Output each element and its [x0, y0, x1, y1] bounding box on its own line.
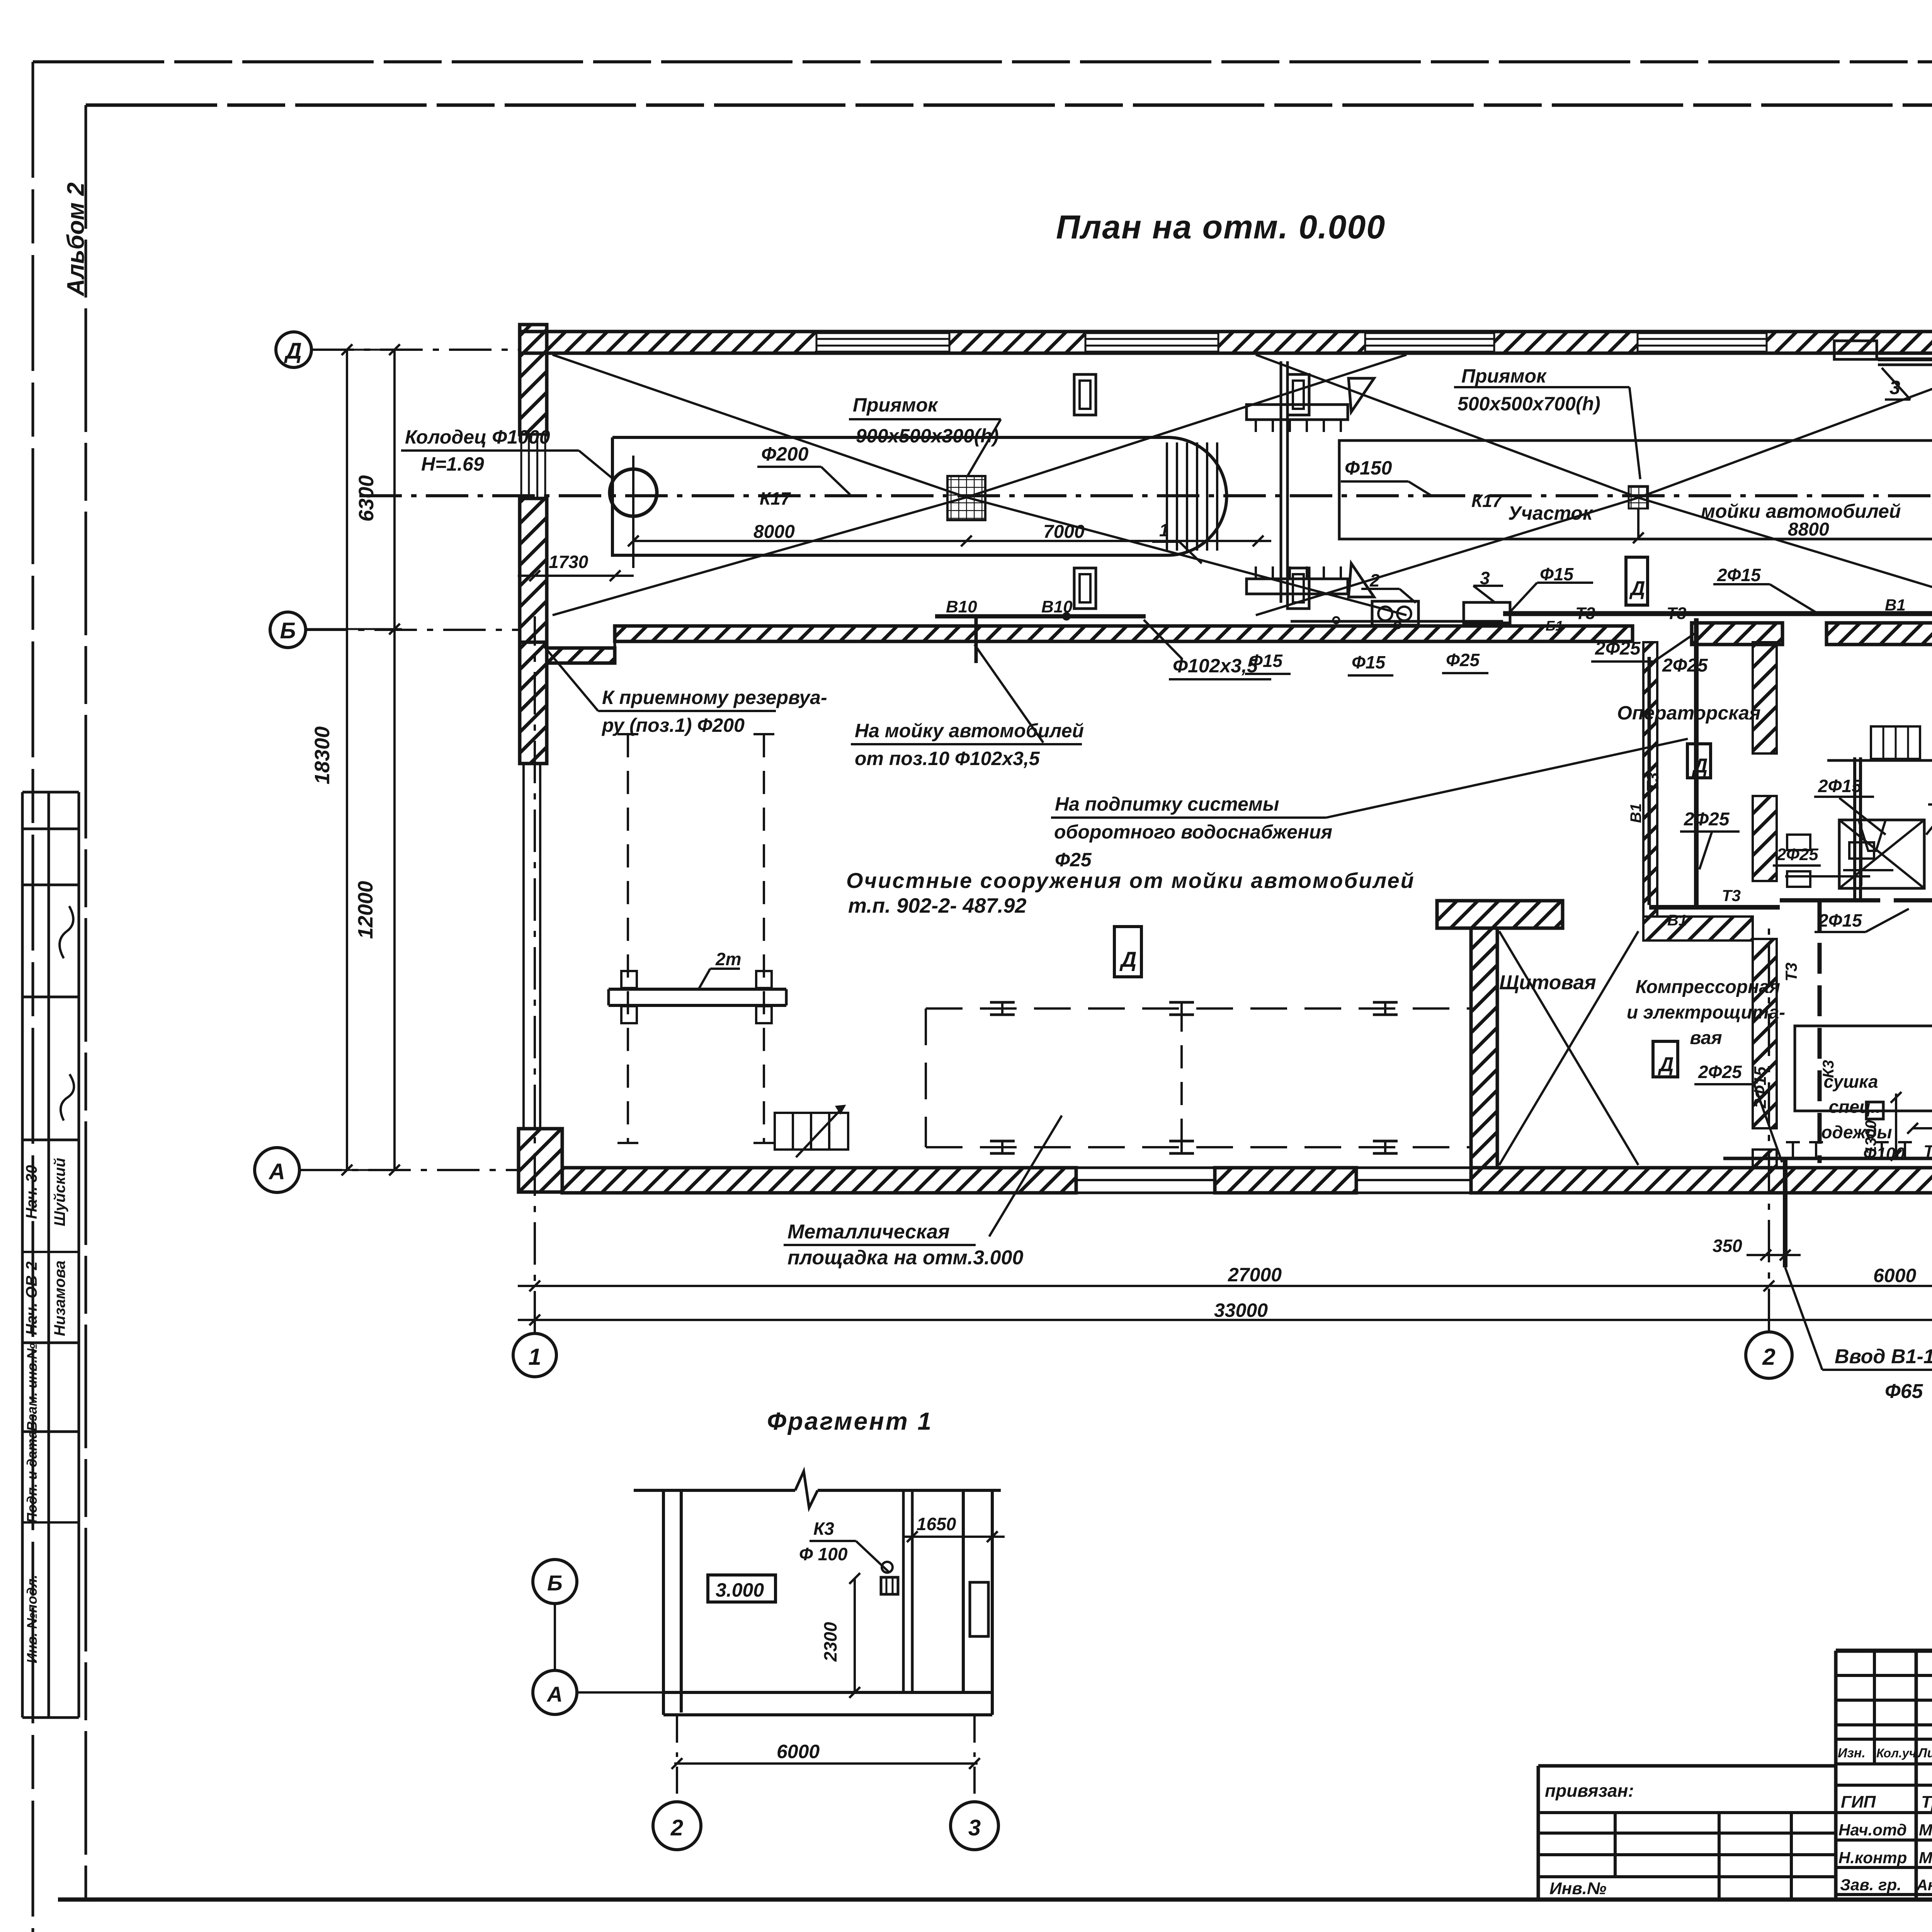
- svg-text:На подпитку системы: На подпитку системы: [1055, 793, 1279, 815]
- svg-text:6000: 6000: [1873, 1265, 1916, 1286]
- svg-text:27000: 27000: [1228, 1264, 1282, 1286]
- svg-text:Д: Д: [1119, 947, 1136, 971]
- svg-text:Т3: Т3: [1923, 1142, 1932, 1161]
- svg-text:8800: 8800: [1788, 519, 1829, 540]
- svg-text:В10: В10: [946, 597, 977, 616]
- svg-text:Инв.№: Инв.№: [1549, 1879, 1606, 1898]
- svg-text:Ф25: Ф25: [1055, 849, 1092, 871]
- svg-text:К17: К17: [1471, 491, 1503, 511]
- svg-text:На мойку автомобилей: На мойку автомобилей: [855, 720, 1084, 742]
- svg-text:К приемному резервуа-: К приемному резервуа-: [602, 687, 827, 708]
- svg-text:Ф 100: Ф 100: [799, 1544, 848, 1564]
- svg-text:вая: вая: [1690, 1028, 1722, 1048]
- svg-text:План на отм. 0.000: План на отм. 0.000: [1056, 209, 1386, 246]
- svg-text:2Ф25: 2Ф25: [1595, 638, 1641, 659]
- svg-text:500х500х700(h): 500х500х700(h): [1458, 393, 1600, 415]
- svg-text:Очистные сооружения от мойк: Очистные сооружения от мойки автомобилей: [846, 868, 1415, 893]
- svg-text:900х500х300(h): 900х500х300(h): [856, 425, 999, 447]
- svg-text:В1: В1: [1885, 596, 1906, 614]
- svg-text:от поз.10 Ф102х3,5: от поз.10 Ф102х3,5: [855, 748, 1040, 769]
- svg-text:2: 2: [1369, 570, 1380, 590]
- svg-text:Б: Б: [547, 1571, 563, 1595]
- svg-text:Подп. и дата: Подп. и дата: [24, 1431, 40, 1523]
- svg-text:Т3: Т3: [1722, 886, 1741, 905]
- svg-text:2Ф25: 2Ф25: [1684, 809, 1730, 830]
- svg-text:В1: В1: [1667, 912, 1687, 929]
- svg-text:ру (поз.1) Ф200: ру (поз.1) Ф200: [601, 714, 745, 736]
- svg-text:Т3: Т3: [1782, 963, 1800, 981]
- svg-text:1: 1: [1159, 520, 1169, 540]
- svg-text:2Ф25: 2Ф25: [1776, 845, 1818, 864]
- svg-text:Низамова: Низамова: [51, 1260, 68, 1336]
- svg-text:ГИП: ГИП: [1841, 1793, 1876, 1811]
- svg-text:Т3: Т3: [1667, 604, 1686, 623]
- svg-text:В1: В1: [1628, 803, 1645, 823]
- svg-text:2Ф15: 2Ф15: [1717, 565, 1761, 585]
- svg-text:350: 350: [1713, 1236, 1742, 1256]
- svg-text:Нач.отд: Нач.отд: [1838, 1821, 1907, 1839]
- svg-text:спец..: спец..: [1829, 1097, 1881, 1117]
- svg-text:А: А: [546, 1682, 563, 1706]
- svg-text:33000: 33000: [1214, 1299, 1268, 1321]
- svg-text:Н.контр: Н.контр: [1838, 1849, 1907, 1867]
- svg-text:мойки автомобилей: мойки автомобилей: [1701, 500, 1901, 522]
- svg-text:Марионков: Марионков: [1919, 1849, 1932, 1867]
- svg-text:6000: 6000: [777, 1741, 820, 1762]
- svg-text:Инв. №подл.: Инв. №подл.: [24, 1575, 40, 1663]
- svg-text:Ф25: Ф25: [1446, 650, 1480, 670]
- svg-text:К17: К17: [760, 488, 791, 509]
- svg-text:2: 2: [670, 1815, 683, 1840]
- svg-text:и электрощита-: и электрощита-: [1627, 1002, 1785, 1023]
- svg-text:6300: 6300: [355, 475, 378, 522]
- svg-text:Марионков: Марионков: [1919, 1821, 1932, 1839]
- svg-text:3.000: 3.000: [716, 1579, 764, 1601]
- svg-text:Кол.уч: Кол.уч: [1876, 1746, 1916, 1760]
- svg-text:1: 1: [528, 1344, 541, 1370]
- svg-text:1730: 1730: [549, 552, 588, 572]
- svg-text:Ф200: Ф200: [761, 443, 809, 465]
- svg-text:Н=1.69: Н=1.69: [421, 453, 484, 475]
- svg-text:Металлическая: Металлическая: [787, 1221, 950, 1243]
- svg-text:В10: В10: [1041, 597, 1073, 616]
- svg-text:К3: К3: [1820, 1060, 1837, 1078]
- svg-text:Зав. гр.: Зав. гр.: [1840, 1876, 1901, 1894]
- svg-text:12000: 12000: [354, 881, 377, 939]
- svg-text:А: А: [268, 1159, 285, 1184]
- svg-text:Трушин: Трушин: [1921, 1793, 1932, 1811]
- svg-text:Б: Б: [280, 618, 296, 643]
- svg-text:2Ф25: 2Ф25: [1698, 1062, 1742, 1082]
- svg-text:Шуйский: Шуйский: [51, 1158, 68, 1226]
- svg-text:Лист: Лист: [1917, 1746, 1932, 1760]
- svg-text:Щитовая: Щитовая: [1499, 971, 1596, 994]
- svg-text:8000: 8000: [753, 522, 795, 542]
- svg-text:Ф15: Ф15: [1352, 652, 1386, 672]
- svg-text:Д: Д: [284, 338, 302, 364]
- svg-text:Нач. ОВ-2: Нач. ОВ-2: [23, 1262, 40, 1335]
- svg-text:Д: Д: [1658, 1053, 1674, 1076]
- svg-text:2Ф15: 2Ф15: [1751, 1066, 1770, 1109]
- svg-text:привязан:: привязан:: [1545, 1781, 1634, 1801]
- svg-text:Ф15: Ф15: [1249, 651, 1283, 671]
- svg-text:Приямок: Приямок: [853, 394, 939, 416]
- svg-text:Т3: Т3: [1643, 772, 1662, 792]
- svg-text:оборотного водоснабжения: оборотного водоснабжения: [1054, 821, 1332, 843]
- svg-text:т.п. 902-2- 487.92: т.п. 902-2- 487.92: [848, 894, 1027, 917]
- svg-text:К3: К3: [813, 1519, 834, 1539]
- svg-text:Ввод В1-1: Ввод В1-1: [1835, 1345, 1932, 1368]
- svg-text:Участок: Участок: [1508, 502, 1594, 524]
- svg-text:Ф150: Ф150: [1345, 457, 1392, 479]
- svg-text:7000: 7000: [1043, 522, 1085, 542]
- svg-text:2: 2: [1762, 1344, 1775, 1370]
- svg-text:Фрагмент 1: Фрагмент 1: [767, 1407, 933, 1435]
- svg-text:Б1: Б1: [1546, 618, 1563, 634]
- svg-text:3: 3: [968, 1815, 981, 1840]
- svg-text:2т: 2т: [715, 949, 741, 969]
- svg-text:Ф100: Ф100: [1863, 1144, 1905, 1163]
- svg-text:Приямок: Приямок: [1461, 365, 1547, 387]
- svg-text:Ф15: Ф15: [1540, 564, 1574, 584]
- svg-text:Ф65: Ф65: [1885, 1380, 1923, 1403]
- svg-text:Операторская: Операторская: [1617, 702, 1760, 724]
- svg-text:Взам. инв.№: Взам. инв.№: [24, 1343, 40, 1431]
- svg-text:18300: 18300: [311, 726, 334, 784]
- svg-text:Альбом 2: Альбом 2: [63, 182, 89, 297]
- svg-text:Компрессорная: Компрессорная: [1636, 977, 1780, 997]
- svg-text:Колодец Ф1000: Колодец Ф1000: [405, 426, 550, 448]
- svg-text:1650: 1650: [917, 1514, 956, 1534]
- svg-text:Д: Д: [1629, 577, 1645, 600]
- svg-text:2Ф15: 2Ф15: [1818, 910, 1862, 930]
- svg-text:Антаненкова: Антаненкова: [1916, 1877, 1932, 1894]
- svg-text:Т3: Т3: [1575, 604, 1595, 623]
- svg-text:2300: 2300: [820, 1622, 840, 1662]
- svg-text:площадка на отм.3.000: площадка на отм.3.000: [787, 1247, 1023, 1269]
- svg-text:Изн.: Изн.: [1838, 1746, 1866, 1760]
- svg-text:2Ф15: 2Ф15: [1818, 776, 1862, 796]
- svg-text:2Ф25: 2Ф25: [1662, 655, 1708, 676]
- svg-text:Нач. 30: Нач. 30: [23, 1165, 40, 1219]
- svg-text:одежды: одежды: [1821, 1122, 1892, 1142]
